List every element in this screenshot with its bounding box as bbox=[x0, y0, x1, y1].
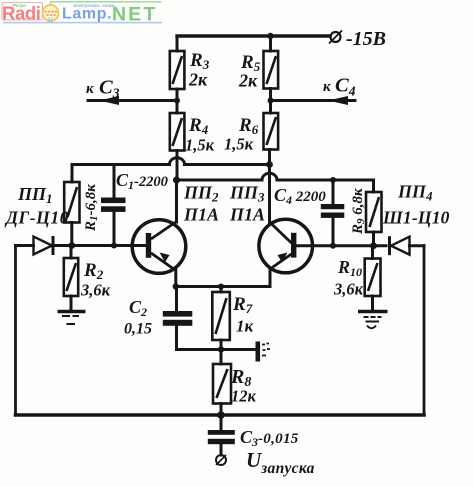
svg-text:-15В: -15В bbox=[346, 28, 386, 50]
svg-text:к: к bbox=[86, 81, 94, 97]
transistor U1 ПП2 circle bbox=[132, 220, 186, 274]
svg-text:ДГ-Ц10: ДГ-Ц10 bbox=[4, 208, 69, 228]
wire R2 top lead bbox=[70, 246, 73, 259]
terminal -15V bbox=[331, 32, 341, 42]
arrow к C3 bbox=[99, 96, 119, 105]
svg-text:П1А: П1А bbox=[229, 205, 265, 225]
capacitor C2 bbox=[163, 311, 193, 326]
transistor ПП2 emitter arrow bbox=[160, 253, 170, 263]
resistor R1 bbox=[64, 182, 79, 223]
wire R8 bottom lead bbox=[220, 404, 223, 416]
diode ПП1 bbox=[34, 237, 53, 255]
wire R7 top lead bbox=[220, 287, 223, 293]
wire cross coupling lower with hop over R6 lead bbox=[177, 173, 374, 192]
wire R1 bottom lead bbox=[70, 223, 73, 246]
wire R10 ground lead bbox=[371, 296, 374, 311]
terminal U start bbox=[216, 455, 226, 465]
wire R4 bottom lead to collector node bbox=[176, 151, 179, 181]
wire R3 top lead bbox=[176, 36, 179, 51]
wire R2 ground lead bbox=[70, 296, 73, 311]
svg-text:NET: NET bbox=[112, 4, 158, 26]
ground under R10 bbox=[358, 312, 388, 329]
svg-text:1к: 1к bbox=[236, 317, 254, 336]
wire left collector vertical bbox=[175, 180, 178, 222]
junction node dots bbox=[68, 33, 377, 419]
svg-text:C3-0,015: C3-0,015 bbox=[240, 427, 299, 449]
wire left base row bbox=[55, 244, 146, 247]
wire right tail vertical bbox=[423, 246, 426, 415]
wire C1 top lead bbox=[113, 165, 116, 198]
wire R10 top lead bbox=[371, 246, 374, 259]
transistor ПП3 emitter arrow bbox=[278, 253, 288, 263]
wire R1 column top bbox=[71, 165, 74, 183]
logo lamp icon bbox=[43, 5, 59, 21]
transistor U2 ПП3 circle bbox=[259, 219, 313, 273]
transistor ПП2 emitter diagonal bbox=[151, 253, 176, 271]
svg-text:0,15: 0,15 bbox=[124, 321, 152, 338]
resistor R2 bbox=[64, 258, 78, 296]
arrow к C4 bbox=[328, 96, 348, 105]
svg-text:Lamp.: Lamp. bbox=[62, 6, 112, 23]
wire C2 top lead bbox=[175, 287, 178, 312]
wire left approach to diode bbox=[16, 244, 34, 247]
capacitor C4 bbox=[321, 204, 345, 218]
svg-text:C4 2200: C4 2200 bbox=[274, 185, 326, 207]
wire left emitter vertical bbox=[174, 270, 177, 287]
svg-text:к: к bbox=[323, 79, 331, 95]
logo green top line bbox=[51, 2, 162, 8]
capacitor C3 bbox=[208, 430, 235, 444]
logo red frame bbox=[2, 3, 43, 21]
resistor R10 bbox=[365, 259, 381, 297]
svg-text:2к: 2к bbox=[238, 71, 258, 91]
svg-text:3,6к: 3,6к bbox=[80, 281, 111, 300]
svg-text:3,6к: 3,6к bbox=[333, 280, 364, 299]
diode ПП4 bbox=[391, 237, 410, 255]
wire R8 top lead bbox=[220, 350, 223, 365]
wire C1 bottom lead bbox=[113, 212, 116, 246]
wire long bottom rail bbox=[16, 413, 425, 417]
chassis mark right of R7 bbox=[256, 342, 261, 362]
wire emitter row bbox=[176, 285, 270, 288]
transistor ПП3 base bar bbox=[291, 233, 296, 258]
svg-text:R9 6,8к: R9 6,8к bbox=[350, 188, 367, 235]
wire R9 bottom lead bbox=[372, 232, 375, 246]
logo blue underline bbox=[3, 22, 162, 24]
wire right emitter vertical bbox=[269, 269, 272, 287]
svg-text:12к: 12к bbox=[231, 387, 257, 406]
wire ground row under R7 bbox=[177, 348, 256, 351]
resistor R5 bbox=[264, 51, 279, 89]
transistor ПП2 base bar bbox=[146, 233, 151, 258]
logo lamp pins blue bbox=[48, 18, 50, 23]
svg-text:2к: 2к bbox=[188, 70, 208, 90]
wire C3 bottom lead bbox=[220, 444, 223, 456]
wire cross coupling upper with hop over R4 lead bbox=[72, 158, 270, 165]
svg-text:1,5к: 1,5к bbox=[224, 135, 254, 154]
wire R5-R6 lead bbox=[269, 89, 272, 114]
transistor ПП3 emitter diagonal bbox=[270, 254, 292, 269]
wire R3-R4 lead bbox=[176, 89, 179, 113]
resistor R6 bbox=[264, 113, 279, 150]
svg-text:Ш1-Ц10: Ш1-Ц10 bbox=[382, 208, 450, 228]
svg-text:П1А: П1А bbox=[183, 205, 219, 225]
transistor ПП2 collector diagonal bbox=[151, 222, 177, 240]
wire C2 bottom lead bbox=[175, 326, 178, 350]
svg-text:C1-2200: C1-2200 bbox=[116, 170, 168, 192]
svg-text:Radi: Radi bbox=[2, 3, 41, 24]
resistor R4 bbox=[170, 113, 185, 151]
wire right diode to corner bbox=[410, 244, 425, 247]
wire к C4 line bbox=[271, 99, 356, 102]
wire top rail bbox=[177, 34, 330, 37]
svg-text:1,5к: 1,5к bbox=[185, 136, 215, 155]
resistor R3 bbox=[170, 51, 185, 89]
wire left tail vertical bbox=[14, 246, 17, 416]
resistor R7 bbox=[212, 292, 230, 340]
resistor R9 bbox=[366, 192, 382, 232]
wire C3 top lead bbox=[220, 415, 223, 430]
wire C4 bottom lead bbox=[332, 218, 335, 246]
svg-text:R1-6,8к: R1-6,8к bbox=[83, 184, 100, 232]
wire R5 top lead bbox=[269, 36, 272, 51]
transistor ПП3 collector diagonal bbox=[270, 222, 292, 243]
wire right base row bbox=[294, 244, 386, 247]
resistor R8 bbox=[213, 364, 231, 404]
wire R7 bottom lead bbox=[220, 340, 223, 350]
ground under R2 bbox=[58, 312, 86, 325]
wire C4 top lead bbox=[332, 180, 335, 204]
wire R6 lead down to right collector bbox=[268, 150, 271, 223]
capacitor C1 bbox=[101, 198, 126, 212]
wire к C3 line bbox=[88, 99, 177, 102]
